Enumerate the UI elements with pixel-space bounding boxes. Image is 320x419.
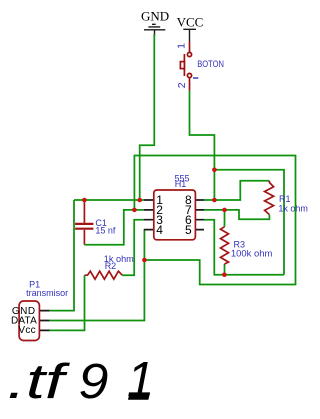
- resistor R1: [265, 181, 274, 215]
- svg-text:GND: GND: [141, 9, 169, 24]
- wire R1 bottom to pin 7: [204, 210, 269, 219]
- wire big net pin2 pin4 DATA loop: [134, 156, 295, 285]
- svg-text:5: 5: [185, 223, 192, 237]
- junction node VCC corner: [212, 168, 217, 173]
- junction node R3 bottom: [222, 272, 227, 277]
- svg-text:1k ohm: 1k ohm: [278, 204, 308, 214]
- wire pin 2 stub connection: [134, 209, 143, 211]
- svg-text:R2: R2: [105, 261, 117, 271]
- wire VCC vertical to pin 8: [204, 170, 214, 200]
- power VCC: [183, 29, 196, 41]
- wire VCC branch right and down: [214, 170, 284, 275]
- junction node pin7: [222, 208, 227, 213]
- wire C1 bottom to pin 2: [84, 210, 134, 245]
- svg-text:2: 2: [176, 82, 188, 88]
- svg-text:15 nf: 15 nf: [95, 225, 116, 235]
- wire R2 left down to P1 Vcc: [50, 275, 85, 330]
- wire left rail to P1 GND: [50, 200, 74, 311]
- junction node pin2: [132, 208, 137, 213]
- svg-text:transmisor: transmisor: [26, 288, 68, 298]
- svg-text:BOTON: BOTON: [197, 59, 224, 69]
- IC U1 555 body: [154, 190, 196, 240]
- wire pin 4 down to P1 DATA: [50, 230, 145, 321]
- svg-text:H1: H1: [175, 179, 187, 189]
- svg-text:100k ohm: 100k ohm: [231, 248, 273, 258]
- wire R3 bottom row to pin 6: [204, 220, 284, 275]
- svg-text:Vcc: Vcc: [18, 325, 36, 336]
- svg-text:VCC: VCC: [177, 14, 204, 29]
- resistor R3: [221, 210, 229, 275]
- junction node pin8: [212, 198, 217, 203]
- wire pin 8 to R1 top: [214, 181, 269, 200]
- svg-text:R1: R1: [279, 194, 291, 204]
- svg-text:9: 9: [79, 355, 109, 409]
- capacitor C1: [75, 200, 93, 245]
- wire button to VCC corner: [190, 91, 215, 170]
- connector P1 pin stubs: [39, 311, 49, 331]
- svg-text:4: 4: [156, 223, 163, 237]
- connector P1 body: [19, 301, 39, 341]
- wire pin 3 down to R2: [122, 220, 144, 276]
- caption digit 1 foot: [128, 396, 149, 400]
- svg-text:1: 1: [176, 43, 188, 49]
- junction node C1 top: [82, 198, 87, 203]
- resistor R2: [85, 271, 123, 279]
- svg-text:.tf: .tf: [7, 355, 70, 409]
- pushbutton BOTON: [180, 42, 191, 91]
- junction node pin4 branch: [142, 258, 147, 263]
- junction node pin1: [137, 198, 142, 203]
- wire pin 1 row: [74, 199, 144, 201]
- op IC 555 pin stubs: [144, 200, 204, 230]
- wire GND down to pin1: [140, 34, 155, 200]
- minus mark: [193, 77, 198, 79]
- ground: [144, 24, 165, 36]
